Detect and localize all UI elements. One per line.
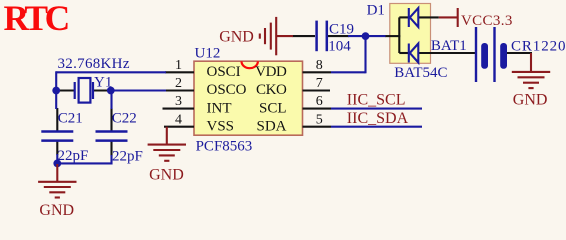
svg-text:C19: C19	[329, 21, 354, 37]
svg-text:RTC: RTC	[4, 0, 68, 38]
svg-text:5: 5	[316, 112, 323, 127]
svg-text:IIC_SDA: IIC_SDA	[347, 110, 409, 127]
svg-text:BAT1: BAT1	[431, 38, 467, 54]
svg-text:3: 3	[175, 94, 182, 109]
svg-text:VDD: VDD	[255, 64, 287, 80]
svg-text:INT: INT	[207, 100, 232, 116]
svg-text:8: 8	[316, 58, 323, 73]
svg-text:22pF: 22pF	[58, 148, 89, 164]
svg-text:104: 104	[328, 39, 351, 55]
svg-text:C21: C21	[58, 111, 83, 127]
svg-text:7: 7	[316, 76, 323, 91]
svg-text:VSS: VSS	[207, 118, 235, 134]
svg-text:CKO: CKO	[256, 82, 287, 98]
svg-text:GND: GND	[149, 167, 184, 184]
svg-text:22pF: 22pF	[112, 148, 143, 164]
svg-text:GND: GND	[513, 92, 548, 109]
svg-text:6: 6	[316, 94, 323, 109]
svg-text:BAT54C: BAT54C	[394, 65, 447, 81]
svg-text:C22: C22	[112, 111, 137, 127]
svg-text:OSCO: OSCO	[207, 82, 247, 98]
svg-text:U12: U12	[195, 45, 221, 61]
svg-text:CR1220: CR1220	[511, 38, 566, 54]
svg-text:32.768KHz: 32.768KHz	[58, 56, 130, 72]
svg-text:D1: D1	[367, 2, 385, 18]
svg-text:4: 4	[175, 112, 182, 127]
svg-text:1: 1	[175, 58, 182, 73]
svg-text:SDA: SDA	[256, 118, 286, 134]
svg-text:IIC_SCL: IIC_SCL	[347, 92, 406, 109]
svg-text:Y1: Y1	[94, 74, 112, 90]
svg-text:2: 2	[175, 76, 182, 91]
svg-text:VCC3.3: VCC3.3	[461, 13, 513, 29]
svg-text:GND: GND	[39, 202, 74, 216]
svg-text:GND: GND	[219, 28, 254, 45]
svg-text:PCF8563: PCF8563	[196, 139, 253, 155]
svg-text:SCL: SCL	[259, 100, 287, 116]
svg-text:OSCI: OSCI	[207, 64, 241, 80]
